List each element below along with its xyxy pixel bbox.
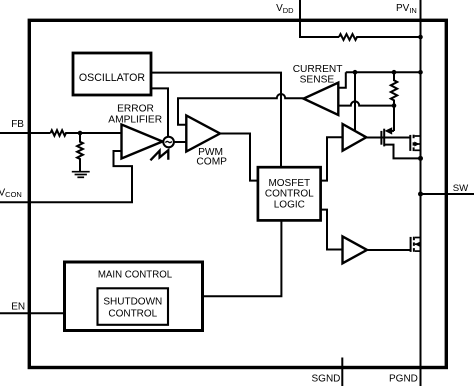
summing node circle — [163, 137, 174, 148]
svg-text:AMPLIFIER: AMPLIFIER — [108, 114, 162, 125]
low-side MOSFET Q3 (power NMOS) — [411, 237, 421, 252]
wire high-side driver output to FET gates — [366, 137, 411, 139]
ground — [72, 172, 90, 178]
sense FET Q1 (current sense PMOS) — [381, 127, 394, 146]
wire MOSFET control logic to high-side driver input — [321, 137, 343, 180]
current sense amplifier — [304, 83, 339, 115]
wire low-side driver output to low-side gate — [367, 249, 411, 251]
wire SW pin horizontal — [421, 193, 474, 195]
wire current sense output to PWM comp input (hop over oscillator wire) — [178, 94, 304, 125]
svg-text:VDD: VDD — [276, 3, 294, 15]
resistor (FB divider to ground) — [77, 133, 83, 172]
junction dot VDD resistor at rail — [418, 35, 423, 40]
MOSFET control logic box — [258, 167, 321, 220]
wire FB pin into chip — [0, 132, 51, 134]
svg-text:CONTROL: CONTROL — [108, 309, 157, 320]
svg-text:MAIN CONTROL: MAIN CONTROL — [98, 270, 173, 281]
svg-text:PGND: PGND — [389, 373, 418, 384]
svg-text:SHUTDOWN: SHUTDOWN — [103, 297, 162, 308]
junction dot SW pin — [418, 192, 423, 197]
svg-text:CURRENT: CURRENT — [293, 64, 343, 75]
resistor (current sense, vertical) — [391, 72, 397, 105]
resistor (FB series) — [51, 130, 122, 136]
main control box — [65, 262, 203, 331]
wire top rail — [346, 71, 421, 73]
junction dot sense resistor at top rail — [392, 70, 397, 75]
tilde in summing node — [165, 141, 171, 142]
svg-text:MOSFET: MOSFET — [268, 178, 310, 189]
svg-text:ERROR: ERROR — [117, 104, 154, 115]
svg-text:CONTROL: CONTROL — [265, 189, 314, 200]
svg-text:SW: SW — [453, 183, 469, 194]
svg-text:OSCILLATOR: OSCILLATOR — [79, 72, 145, 84]
wire current sense amp upper input to top rail — [338, 72, 346, 88]
wire current sense amp lower input (hop over bias line) — [338, 101, 394, 105]
junction dot bias line at top rail — [353, 70, 358, 75]
wire summing node to PWM comp inverting input — [174, 141, 186, 143]
high-side gate driver — [343, 124, 367, 151]
wire PVIN/SW/PGND rail full height — [420, 0, 422, 386]
sawtooth ramp icon — [150, 150, 168, 160]
junction dot SW node upper — [418, 156, 423, 161]
resistor (VDD to PVIN rail) — [339, 34, 421, 40]
junction dot FB divider — [78, 131, 83, 136]
svg-text:PVIN: PVIN — [396, 3, 417, 15]
svg-text:SGND: SGND — [312, 373, 341, 384]
svg-text:FB: FB — [11, 119, 24, 130]
junction dot sense node — [392, 103, 397, 108]
svg-text:EN: EN — [11, 302, 25, 313]
junction dot top rail at PVIN rail — [418, 70, 423, 75]
svg-text:LOGIC: LOGIC — [274, 199, 305, 210]
wire MOSFET control logic to low-side driver input — [321, 210, 343, 250]
wire EN pin to main control — [0, 312, 65, 314]
wire bias line from top rail down to high-side driver — [354, 72, 356, 133]
chip boundary — [29, 20, 446, 367]
high-side MOSFET Q2 (power PMOS) — [410, 135, 420, 151]
wire sense FET source up to sense node — [393, 106, 395, 131]
wire SGND pin stub — [341, 358, 343, 386]
shutdown control box — [98, 288, 169, 325]
wire VDD pin vertical and horizontal to PVIN rail — [300, 0, 339, 37]
wire MOSFET control logic down to main control — [203, 220, 281, 296]
svg-text:COMP: COMP — [196, 156, 227, 167]
oscillator box — [73, 53, 151, 95]
svg-text:VCON: VCON — [0, 188, 22, 200]
svg-text:SENSE: SENSE — [300, 74, 335, 85]
low-side gate driver — [343, 236, 368, 263]
wire PWM comp output to MOSFET control logic — [220, 134, 258, 181]
wire oscillator output to MOSFET control logic — [151, 73, 281, 168]
wire VCON pin with step to error amp inverting input — [0, 151, 132, 202]
PWM comparator — [186, 116, 220, 152]
error amplifier U1 — [122, 125, 163, 159]
wire oscillator ramp to summing node — [151, 88, 168, 136]
wire sense FET drain down to SW node — [384, 145, 420, 159]
